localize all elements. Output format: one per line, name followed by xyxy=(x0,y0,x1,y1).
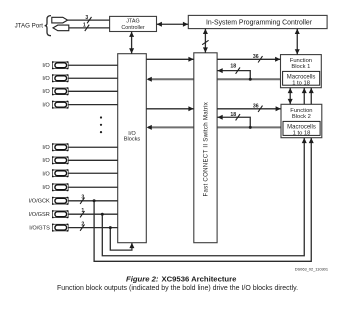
slash 1 on JTAG out xyxy=(85,25,89,31)
slash 18 FB1 xyxy=(236,67,240,73)
JTAG output pin (TDO) xyxy=(53,25,69,31)
svg-text:18: 18 xyxy=(230,64,236,70)
arrowhead global into FB2 bottom x303 xyxy=(302,138,307,143)
svg-text:Controller: Controller xyxy=(121,25,145,31)
box In-System Programming Controller xyxy=(188,15,327,28)
svg-text:1 to 18: 1 to 18 xyxy=(293,130,311,136)
slash 3 GCK xyxy=(80,198,84,204)
svg-text:2: 2 xyxy=(81,221,84,227)
I/O pin 2 xyxy=(52,74,118,82)
box Function Block 1 xyxy=(281,55,322,88)
I/O/GCK pin xyxy=(52,197,118,205)
slash 1 GSR xyxy=(80,211,84,217)
svg-text:18: 18 xyxy=(230,112,236,118)
svg-text:I/O: I/O xyxy=(42,145,50,151)
arrowhead bold line FB2 into I/O blocks xyxy=(147,125,152,130)
node GSR junction xyxy=(101,213,104,216)
wire I/O blocks to FastCONNECT row 2 xyxy=(146,108,194,110)
svg-text:1: 1 xyxy=(81,208,84,214)
svg-text:JTAG: JTAG xyxy=(126,19,139,25)
arrowhead global into FB2 bottom x310 xyxy=(309,138,314,143)
wire global into FB1 from FB2 (x303) xyxy=(303,88,305,105)
svg-text:I/O: I/O xyxy=(42,171,50,177)
slash 18 FB2 xyxy=(236,114,240,120)
wire global into FB1 from FB2 (x310) xyxy=(310,88,312,105)
I/O pin 3 xyxy=(52,87,118,95)
box FB1 Macrocells 1 to 18 xyxy=(283,71,320,85)
wire GTS loop into I/O blocks bottom xyxy=(110,228,132,251)
I/O pin 8 xyxy=(52,183,118,191)
svg-text:Blocks: Blocks xyxy=(124,137,141,143)
svg-text:1: 1 xyxy=(83,23,86,29)
wire I/O blocks to FastCONNECT row 1 xyxy=(146,58,194,60)
wire FB1 to FB2 (double arrow) xyxy=(289,88,291,105)
slash 3 on JTAG in xyxy=(87,17,91,23)
box I/O Blocks xyxy=(118,54,147,243)
svg-text:1 to 18: 1 to 18 xyxy=(292,80,310,86)
wire JTAG out from controller xyxy=(69,27,110,29)
wire JTAG in to controller xyxy=(68,19,110,21)
svg-text:DS063_02_110301: DS063_02_110301 xyxy=(295,266,328,271)
arrowhead bold line FB1 into I/O blocks xyxy=(147,77,152,82)
JTAG input pin (3 signals) xyxy=(52,17,68,23)
svg-text:3: 3 xyxy=(85,15,88,21)
slash 36 FB1 xyxy=(258,56,262,62)
node FB2 output junction xyxy=(249,126,252,129)
box Function Block 2 xyxy=(281,104,322,137)
node FB1 output junction xyxy=(249,78,252,81)
wire ISP to FastCONNECT (double arrow with slash) xyxy=(204,29,206,53)
svg-text:Fast CONNECT II Switch Matrix: Fast CONNECT II Switch Matrix xyxy=(202,102,209,197)
svg-text:3: 3 xyxy=(81,195,84,201)
wire macrocell feedback 18 FB2 xyxy=(217,117,250,127)
svg-text:I/O/GCK: I/O/GCK xyxy=(29,199,50,205)
arrowhead GTS into I/O blocks bottom xyxy=(129,243,134,248)
svg-text:I/O: I/O xyxy=(42,63,50,69)
svg-text:I/O/GSR: I/O/GSR xyxy=(29,212,50,218)
wire FastCONNECT to FB1 (36) xyxy=(217,58,280,60)
svg-text:I/O/GTS: I/O/GTS xyxy=(29,226,50,232)
wire GCK vertical drop xyxy=(94,138,311,262)
bold line FB2 macrocells to I/O blocks (behind switch matrix) xyxy=(148,126,281,128)
svg-text:I/O: I/O xyxy=(42,89,50,95)
svg-text:I/O: I/O xyxy=(42,158,50,164)
svg-text:Block 2: Block 2 xyxy=(292,114,311,120)
box JTAG Controller xyxy=(110,16,157,31)
node GCK junction xyxy=(93,199,96,202)
bold line FB1 macrocells to I/O blocks (behind switch matrix) xyxy=(148,78,281,80)
wire JTAG controller to ISP controller (double arrow) xyxy=(157,23,189,25)
JTAG Port brace xyxy=(45,16,51,36)
ellipsis dots xyxy=(100,116,102,118)
svg-text:I/O: I/O xyxy=(42,185,50,191)
svg-text:In-System Programming Controll: In-System Programming Controller xyxy=(206,19,313,26)
svg-text:Function block outputs (indica: Function block outputs (indicated by the… xyxy=(57,285,298,292)
svg-text:JTAG Port: JTAG Port xyxy=(15,23,44,30)
wire macrocell feedback 18 FB1 xyxy=(217,71,250,80)
wire JTAG controller to I/O blocks (double arrow) xyxy=(131,32,133,54)
svg-text:36: 36 xyxy=(253,54,259,60)
box FB2 Macrocells 1 to 18 xyxy=(283,121,320,135)
slash 2 GTS xyxy=(80,224,84,230)
svg-text:Figure 2:XC9536 Architecture: Figure 2:XC9536 Architecture xyxy=(126,274,237,283)
svg-text:I/O: I/O xyxy=(42,76,50,82)
wire ISP to Function Block 1 (double arrow) xyxy=(296,29,298,55)
I/O/GTS pin xyxy=(52,224,118,232)
svg-text:I/O: I/O xyxy=(42,102,50,108)
I/O pin 7 xyxy=(52,169,118,177)
svg-text:36: 36 xyxy=(253,104,259,110)
svg-text:Block 1: Block 1 xyxy=(291,64,310,70)
wire GSR vertical drop xyxy=(102,138,304,256)
node GTS junction xyxy=(109,226,112,229)
wire FastCONNECT to FB2 (36) xyxy=(217,108,281,110)
I/O/GSR pin xyxy=(52,210,118,218)
I/O pin 4 xyxy=(52,101,118,109)
slash 36 FB2 xyxy=(258,106,262,112)
I/O pin 6 xyxy=(52,156,118,164)
I/O pin 5 xyxy=(52,143,118,151)
box FastCONNECT Switch Matrix xyxy=(194,53,217,243)
I/O pin 1 xyxy=(52,61,118,69)
